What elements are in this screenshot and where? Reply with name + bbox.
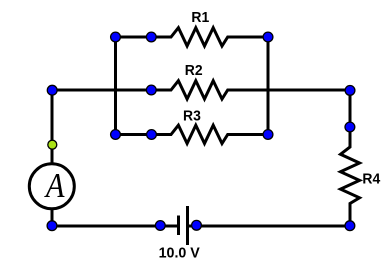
svg-text:R4: R4 <box>362 171 380 188</box>
svg-text:R2: R2 <box>185 63 203 80</box>
svg-text:R1: R1 <box>191 9 209 26</box>
svg-text:A: A <box>44 167 65 205</box>
svg-text:R3: R3 <box>183 108 201 125</box>
svg-text:10.0 V: 10.0 V <box>159 245 200 261</box>
